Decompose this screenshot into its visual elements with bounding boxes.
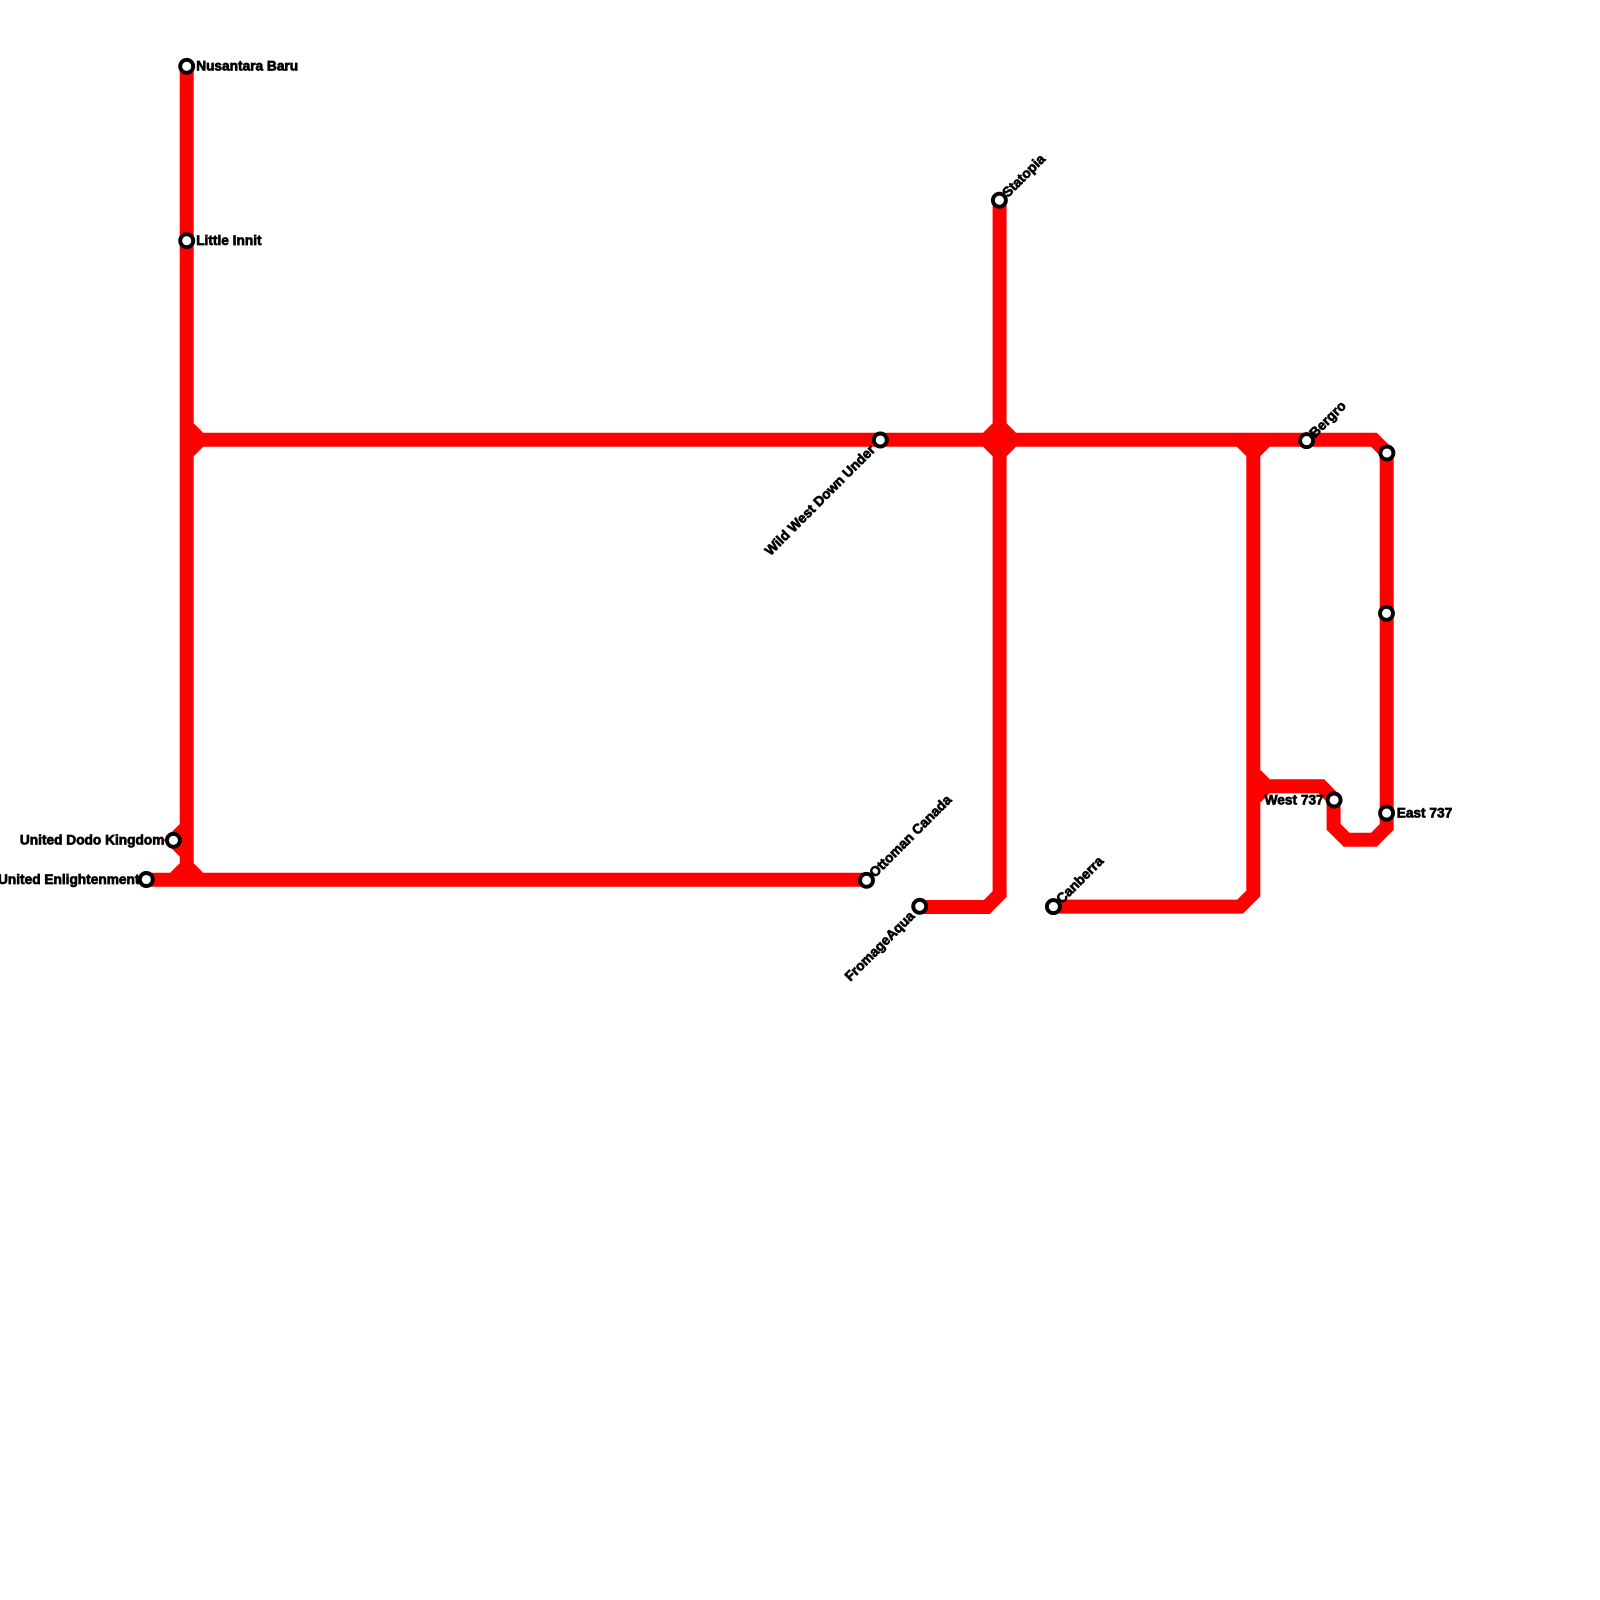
svg-text:Little Innit: Little Innit <box>196 233 262 248</box>
wire: Canberra vertical line <box>1053 440 1253 907</box>
svg-text:East 737: East 737 <box>1397 806 1453 821</box>
wire: west main vertical line (Nusantara Baru to bottom junction) <box>180 66 194 880</box>
junction flare at west vertical x horizontal <box>192 423 204 456</box>
junction flare at Canberra line x horizontal <box>1237 445 1270 457</box>
wire: Statopia vertical line down to FromageAqua <box>920 200 1000 907</box>
station Bergro <box>1300 434 1313 447</box>
station mid unnamed <box>1380 607 1393 620</box>
station corner unnamed <box>1380 447 1393 460</box>
svg-text:United Dodo Kingdom: United Dodo Kingdom <box>20 833 164 848</box>
svg-text:Nusantara Baru: Nusantara Baru <box>196 59 298 74</box>
station Nusantara Baru <box>180 60 193 73</box>
wire: bottom horizontal line (United Enlightenment to Ottoman Canada) <box>146 873 866 887</box>
station United Dodo Kingdom <box>167 834 180 847</box>
junction flares at central crossing <box>983 423 1016 456</box>
svg-text:West 737: West 737 <box>1265 792 1324 807</box>
wire: main horizontal line with east loop (to West 737 branch) <box>187 440 1387 840</box>
wire: jog to United Dodo Kingdom <box>173 827 186 854</box>
station Statopia <box>993 194 1006 207</box>
station East 737 <box>1380 807 1393 820</box>
svg-text:United Enlightenment: United Enlightenment <box>0 872 140 887</box>
station Little Innit <box>180 234 193 247</box>
station United Enlightenment <box>140 873 153 886</box>
station Wild West Down Under <box>874 434 887 447</box>
station West 737 <box>1328 794 1341 807</box>
junction flare at West 737 branch <box>1258 770 1270 803</box>
station Canberra <box>1047 900 1060 913</box>
station FromageAqua <box>913 900 926 913</box>
station Ottoman Canada <box>860 874 873 887</box>
junction flare at bottom junction <box>170 863 203 875</box>
